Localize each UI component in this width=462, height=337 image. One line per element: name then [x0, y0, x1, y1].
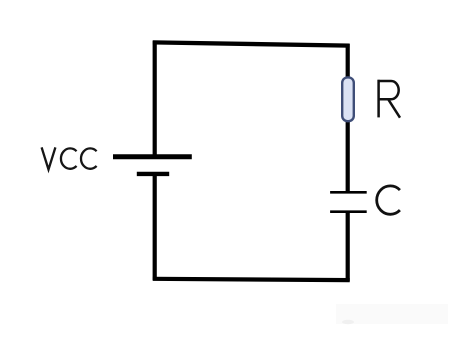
resistor R body: [342, 77, 354, 121]
value label R: [378, 80, 401, 118]
wire bottom rail: [153, 279, 350, 280]
battery source VCC positive (long) plate: [113, 154, 192, 159]
wire left rail lower: [153, 175, 157, 281]
battery source VCC negative (short) plate: [137, 172, 169, 176]
wire right rail mid: [346, 119, 350, 192]
wire right rail lower: [346, 212, 350, 281]
capacitor C top plate: [330, 191, 367, 194]
wire top rail: [153, 42, 350, 45]
capacitor C bottom plate: [330, 210, 367, 213]
net label VCC: [42, 147, 97, 169]
wire right rail upper: [346, 44, 350, 80]
watermark remnant: [336, 304, 448, 324]
value label C: [377, 186, 400, 214]
wire left rail upper: [153, 41, 157, 159]
